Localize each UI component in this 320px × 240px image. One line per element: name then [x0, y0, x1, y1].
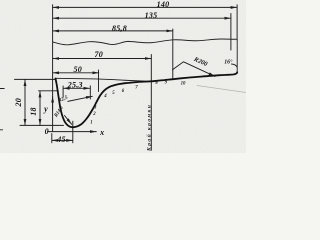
dimension line 45 [52, 139, 73, 141]
paper noise [0, 0, 1, 1]
wavy broken top surface line [53, 39, 237, 45]
leader R14.2 [65, 116, 72, 125]
y axis arrow [52, 96, 54, 110]
extension line bottom horizontal y=125.4 [20, 124, 64, 126]
dimension line 135 [53, 17, 231, 19]
extension line 45 right x=74.6 [72, 121, 74, 143]
leader 16 deg [232, 64, 238, 67]
extension line for 50 at x=98.9 [98, 70, 100, 92]
extension line for 25.3 left x=63.1 [62, 86, 64, 97]
stray mark left edge lower [0, 129, 3, 131]
dimension line 25.3 [63, 87, 90, 89]
dimension line 140 [53, 6, 237, 8]
leader R200 [173, 62, 216, 77]
faint scan streak bottom right [197, 86, 246, 93]
datum chord line y=78 [55, 78, 147, 81]
dimension line 20 vertical [24, 80, 26, 126]
extension line for 135 at x=231 [230, 14, 232, 51]
extension line / y-axis column x=52.6 [52, 5, 54, 132]
extension line right edge x=237 (top thin part) [236, 5, 238, 40]
extension line for 85.8 at x=172.8 [172, 29, 174, 79]
dimension line 50 [53, 72, 99, 74]
leader R2.5 [68, 96, 93, 101]
stray mark left edge upper [0, 88, 4, 90]
extension tick for 18 dim y=90.8 [39, 90, 59, 92]
extension line 45 left x=51.8 [51, 134, 53, 143]
dimension line 70 [53, 58, 152, 60]
dimension line 18 vertical [39, 91, 41, 125]
right edge of part [236, 40, 238, 74]
extension line for 25.3 right x=89.7 [89, 86, 91, 99]
extension line top horizontal y=79.4 [15, 78, 56, 80]
dimension line 85.8 [53, 30, 173, 32]
extension line edge-of-profile x=151.3 with vertical text [150, 55, 152, 151]
x axis [48, 131, 97, 133]
profile curve (bold working edge) [56, 72, 238, 127]
